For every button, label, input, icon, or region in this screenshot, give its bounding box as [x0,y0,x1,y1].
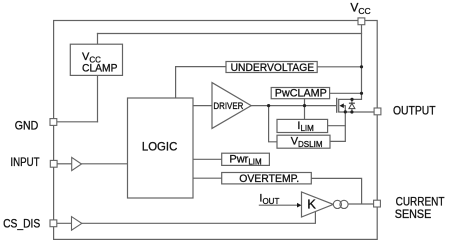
wire: LOGIC to DRIVER input [193,105,212,107]
svg-text:CS_DIS: CS_DIS [3,217,40,231]
pin: OUTPUT [374,108,381,115]
pin: GND [50,119,57,126]
wire: CS_DIS pin to buffer [57,222,72,224]
box: OVERTEMP. [222,173,312,184]
svg-text:UNDERVOLTAGE: UNDERVOLTAGE [231,62,315,74]
svg-text:SENSE: SENSE [395,207,432,221]
svg-text:OVERTEMP.: OVERTEMP. [239,173,299,185]
svg-text:K: K [307,197,316,212]
wire: VDSLIM output stub [330,140,345,142]
pin: CS_DIS [50,220,57,227]
wire: input buffer to LOGIC [82,163,128,165]
node: VCC rail / undervoltage [360,65,363,68]
wire: OUTPUT source rail [339,111,374,113]
svg-text:LOGIC: LOGIC [142,142,177,154]
wire: PwCLAMP down to ILIM [304,99,306,120]
svg-text:PwCLAMP: PwCLAMP [275,88,327,100]
IOUT arrowhead [297,203,302,208]
wire: OVERTEMP to current sense line [311,178,361,203]
wire: VCC vertical drop to clamp FET drain rail [339,25,362,100]
wire: LOGIC to PwrLIM [193,158,222,160]
svg-text:GND: GND [15,118,39,132]
box: VCC CLAMP [70,44,122,75]
pin: VCC [358,18,365,25]
wire: PwCLAMP to VCC rail [330,92,362,94]
wire: LOGIC to OVERTEMP [193,177,222,179]
box: LOGIC [128,98,194,198]
clamp zener diode D1 lead [351,99,353,112]
box: ILIM [277,119,328,132]
current mirror symbol [333,200,348,208]
wire: ILIM output to source node [328,125,346,127]
node: gate wire / ILIM branch [303,104,306,107]
wire: DRIVER output to clamp FET gate [251,105,337,107]
svg-text:INPUT: INPUT [10,155,40,169]
wire: VCC CLAMP bottom lead to GND [97,75,99,121]
amplifier: DRIVER [212,83,251,129]
wire: current mirror to CURRENT SENSE pin [348,203,374,205]
wire: UNDERVOLTAGE output to LOGIC [176,67,226,98]
node: diode bottom on output rail [350,110,353,113]
node: diode top on drain rail [350,98,353,101]
buffer: CS_DIS [72,217,82,231]
amplifier: K current sense [302,192,334,217]
junction dots [267,65,363,113]
box: PwCLAMP [271,88,329,99]
pin: CURRENT SENSE [374,200,381,207]
wire: INPUT pin to buffer [57,163,72,165]
wire: K output to current mirror [332,203,335,205]
pin: INPUT [50,160,57,167]
wire: gate node down to VDSLIM input [269,106,277,142]
wire: IOUT arrow line into K [259,204,298,206]
clamp zener diode D1 [349,103,355,108]
wire: UNDERVOLTAGE supply to VCC rail [317,66,361,68]
node: gate wire / VDSLIM branch [267,104,270,107]
wire: VCC internal rail top horizontal [98,33,362,35]
node: VCC rail / PwCLAMP [360,92,363,95]
box: UNDERVOLTAGE [226,62,317,73]
body/source lead down through output rail to ILIM/VDSLIM [344,106,346,142]
channel bar [338,99,340,112]
box: VDSLIM [277,135,330,148]
clamp FET body arrow [339,103,343,108]
wire: VCC CLAMP top lead [97,34,99,45]
outer block boundary [54,21,378,240]
svg-text:DRIVER: DRIVER [213,101,243,111]
gate bar [336,98,338,113]
wire: CS_DIS buffer to K amplifier [82,211,316,223]
buffer: input [72,157,82,170]
box: PwrLIM [222,153,270,165]
clamp zener diode cathode bar [349,102,355,104]
svg-text:CLAMP: CLAMP [82,62,118,74]
node: FET source on output rail [344,110,347,113]
wire: GND pin to clamp [57,121,98,123]
svg-text:OUTPUT: OUTPUT [393,104,436,118]
clamp FET Q1 [337,98,346,142]
